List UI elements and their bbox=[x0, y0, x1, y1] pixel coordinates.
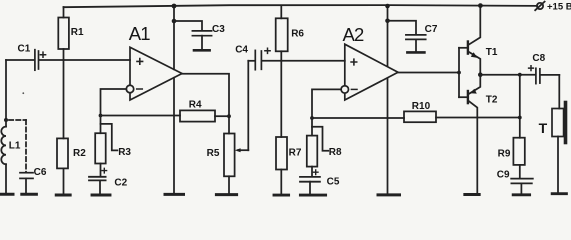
node C3 tap bbox=[172, 19, 177, 24]
svg-text:C4: C4 bbox=[235, 44, 248, 55]
loudspeaker T bbox=[539, 75, 566, 192]
node rail T1 bbox=[478, 3, 483, 8]
ground bbox=[465, 193, 479, 196]
ground bbox=[92, 194, 110, 197]
wire A2 power from rail bbox=[387, 6, 389, 66]
wire A2 power to ground bbox=[387, 78, 389, 193]
node R10/R9 bbox=[518, 116, 522, 120]
node L1 top bbox=[4, 118, 8, 122]
ground bbox=[165, 193, 184, 196]
wire output node bbox=[480, 74, 535, 76]
wire R5 wiper to C4 bbox=[247, 61, 249, 150]
svg-text:C7: C7 bbox=[425, 24, 438, 35]
ground bbox=[216, 193, 236, 196]
capacitor C4 bbox=[235, 44, 345, 69]
capacitor C8 bbox=[529, 53, 560, 83]
svg-text:T: T bbox=[539, 120, 548, 136]
svg-text:A2: A2 bbox=[343, 24, 365, 45]
svg-text:A1: A1 bbox=[129, 23, 151, 44]
svg-text:R2: R2 bbox=[73, 148, 86, 159]
wire left input bbox=[5, 60, 7, 120]
wire A2 inverting input bbox=[312, 89, 341, 118]
ground bbox=[513, 193, 529, 196]
potentiometer R5 bbox=[207, 134, 249, 194]
ground bbox=[0, 193, 13, 196]
ground bbox=[274, 194, 289, 197]
svg-text:C5: C5 bbox=[327, 177, 340, 188]
capacitor C5 bbox=[300, 167, 340, 194]
wire A1 power to ground bbox=[173, 78, 175, 193]
node R4/R5 bbox=[227, 114, 231, 118]
svg-text:C9: C9 bbox=[497, 170, 510, 181]
resistor R9 bbox=[498, 75, 525, 178]
svg-text:C2: C2 bbox=[114, 178, 127, 189]
wire A1 inverting input bbox=[101, 89, 127, 116]
svg-text:T1: T1 bbox=[486, 47, 498, 58]
capacitor C2 bbox=[89, 164, 128, 194]
svg-text:R4: R4 bbox=[189, 100, 202, 111]
svg-text:C3: C3 bbox=[212, 24, 225, 35]
terminal +15 B bbox=[535, 2, 571, 13]
wire A2 output to bases bbox=[398, 72, 459, 74]
resistor R6 bbox=[276, 6, 305, 61]
ground bbox=[22, 193, 37, 196]
resistor R8 (with tap bracket) bbox=[307, 118, 342, 167]
op-amp A1 bbox=[126, 23, 182, 100]
op-amp A2 bbox=[341, 24, 398, 100]
resistor R10 bbox=[312, 101, 520, 122]
capacitor C7 bbox=[388, 21, 438, 53]
resistor R2 bbox=[57, 60, 86, 193]
wire A1 output bbox=[182, 74, 229, 134]
stray mark bbox=[22, 92, 24, 94]
capacitor C6 (dashed branch) bbox=[9, 120, 47, 193]
svg-text:R3: R3 bbox=[118, 147, 131, 158]
resistor R1 bbox=[58, 7, 84, 60]
svg-text:R10: R10 bbox=[412, 101, 431, 112]
resistor R4 bbox=[101, 100, 230, 122]
svg-text:C8: C8 bbox=[532, 53, 545, 64]
wire +15V top rail bbox=[64, 5, 538, 7]
node rail A1 bbox=[172, 4, 177, 9]
svg-text:+15 В: +15 В bbox=[547, 2, 571, 13]
svg-text:R7: R7 bbox=[289, 148, 302, 159]
resistor R3 (trimmer) bbox=[95, 116, 131, 164]
capacitor C3 bbox=[174, 21, 225, 50]
svg-text:R6: R6 bbox=[291, 28, 304, 39]
svg-text:R9: R9 bbox=[498, 149, 511, 160]
svg-text:R8: R8 bbox=[329, 147, 342, 158]
capacitor C9 bbox=[497, 170, 533, 194]
node R9 tap bbox=[518, 73, 522, 77]
inductor L1 bbox=[1, 120, 21, 193]
node rail A2 bbox=[385, 4, 390, 9]
svg-text:C6: C6 bbox=[34, 167, 47, 178]
ground bbox=[56, 194, 70, 197]
ground bbox=[552, 192, 566, 195]
transistor T2 bbox=[459, 75, 498, 193]
wire A1 power from rail bbox=[173, 6, 175, 69]
svg-text:C1: C1 bbox=[18, 43, 31, 54]
ground bbox=[378, 193, 400, 196]
transistor T1 bbox=[459, 5, 498, 74]
node bases bbox=[457, 71, 461, 75]
node A2 feedback bbox=[310, 116, 314, 120]
resistor R7 bbox=[276, 61, 302, 194]
capacitor C1 bbox=[6, 43, 130, 70]
node emitters bbox=[478, 72, 483, 77]
svg-text:T2: T2 bbox=[486, 95, 498, 106]
node C7 tap bbox=[385, 19, 390, 24]
svg-text:L1: L1 bbox=[9, 140, 21, 151]
svg-text:R1: R1 bbox=[71, 27, 84, 38]
node A1 feedback bbox=[99, 114, 103, 118]
wire base bus bbox=[458, 48, 460, 97]
svg-text:R5: R5 bbox=[207, 148, 220, 159]
ground bbox=[300, 194, 325, 197]
